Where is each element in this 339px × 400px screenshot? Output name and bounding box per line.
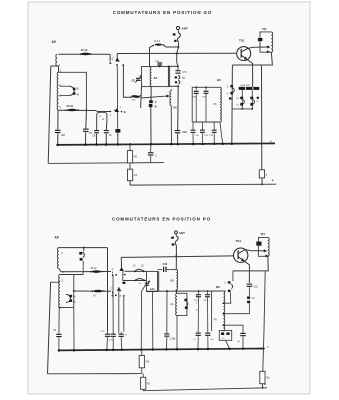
contact arm right with arrow [116, 54, 118, 59]
wire: A2 top corner to ANT line [168, 65, 178, 67]
capacitor C16a [105, 121, 108, 130]
emitter chain 16 blobs [247, 296, 250, 299]
cluster column B [251, 90, 253, 109]
wire: F6 down to bus1 [220, 122, 223, 144]
svg-text:+: + [264, 382, 266, 386]
svg-text:COMMUTATEURS EN POSITION PO: COMMUTATEURS EN POSITION PO [112, 217, 211, 222]
wire: emitter down [247, 60, 252, 87]
junction: ANT node on base wire [176, 53, 178, 55]
switch contacts inside box (26/45) [60, 85, 70, 87]
svg-text:C: C [155, 154, 157, 157]
svg-text:30 18: 30 18 [67, 104, 74, 108]
cap at 122.5 (PO) [118, 332, 120, 333]
oscillator box A2 outline [142, 67, 169, 87]
wire: switch left to riser [123, 66, 131, 98]
antenna switch contacts below ANT [173, 33, 176, 35]
cluster bottom tie wire [232, 108, 253, 110]
wire: ANT chain to C13 [177, 86, 180, 130]
svg-text:C13b: C13b [170, 338, 176, 340]
svg-text:C: C [111, 287, 113, 290]
tap3 wire with cap Cb (PO) [223, 325, 243, 333]
coil box (PO) left winding [59, 275, 60, 308]
svg-text:CO: CO [132, 79, 136, 82]
wire: osc box center down to bus [152, 291, 154, 350]
box bottom (PO) [60, 307, 74, 309]
wire: ANT down (PO) [175, 234, 177, 236]
base wire (PO) [121, 256, 233, 258]
wire: FI1 bottom L to emitter rail [232, 52, 272, 65]
row1 wire (PO) [59, 269, 111, 272]
transistor TS1 (GO) [237, 47, 251, 61]
wire: top horizontal to switch S1 [58, 53, 110, 55]
mid rail (PO) [48, 373, 142, 375]
svg-text:+: + [272, 179, 274, 183]
emitter RC cluster caps row [239, 87, 245, 90]
antenna terminal ANT (PO) [175, 231, 178, 234]
coil L2 winding section 3 [57, 96, 58, 110]
capacitor C2 [57, 110, 59, 130]
collector supply drop [261, 65, 263, 170]
svg-text:20 12: 20 12 [91, 267, 98, 270]
svg-text:A5: A5 [52, 40, 56, 44]
wire: ANT down to main node [177, 30, 179, 33]
row2 contacts [112, 295, 114, 297]
bottom caps row (PO) [196, 333, 201, 334]
wire: FI1 bottom to left rail (PO) [233, 256, 268, 271]
resistor R2 (PO) [142, 374, 144, 378]
svg-text:4 B: 4 B [133, 156, 137, 158]
ground bus (PO) [59, 349, 265, 351]
cap C between buses [150, 145, 152, 153]
wire: box bottom extension to node 1 [97, 111, 111, 113]
wire: tap stub to left rail [51, 65, 57, 67]
wire: emitter down (PO) [245, 261, 250, 283]
wire: coil tap to box [57, 66, 58, 73]
svg-text:C: C [112, 268, 114, 271]
svg-text:C3T: C3T [204, 300, 209, 302]
svg-text:CA1: CA1 [150, 288, 155, 291]
crystal-like component top (PO) [83, 248, 85, 252]
ground bus (GO) [56, 143, 275, 145]
wire: A2 center down [150, 87, 152, 101]
antenna switch contacts (PO) [171, 237, 174, 239]
coil L1 top winding [56, 54, 57, 65]
wire: CA1 down to bus (PO) [141, 287, 144, 350]
vertical link at contact column (PO) [122, 271, 124, 280]
coil L1 winding (PO) [57, 248, 58, 269]
wire: box3 down to bus [176, 315, 178, 349]
wire: collector to FI1 (PO) [245, 250, 265, 251]
capacitor C6 [85, 110, 88, 128]
svg-text:FI1: FI1 [262, 27, 267, 31]
BC box outline [192, 87, 220, 122]
svg-text:20 12: 20 12 [81, 48, 88, 52]
svg-text:FI1: FI1 [261, 232, 266, 236]
capacitor C8 [96, 121, 98, 130]
coil L2 winding section 1 [57, 72, 58, 85]
cap C2 (PO) [58, 308, 60, 334]
wire: Ra to B+ (PO) [262, 384, 264, 388]
switch contacts in box (PO) [66, 294, 71, 298]
svg-text:13T: 13T [194, 300, 198, 302]
FI1 transformer block [260, 32, 271, 38]
BC box (PO) [211, 291, 213, 331]
wire: ANT line down to C16 node [167, 269, 177, 271]
svg-text:13N: 13N [155, 61, 159, 63]
row2 wire (PO) [74, 290, 111, 292]
top wire (PO) [59, 247, 108, 249]
coil box (PO) top edge [60, 274, 83, 276]
jumper loop 11/14 [97, 112, 107, 121]
svg-text:A5: A5 [170, 278, 174, 282]
resistor R1 (PO) [141, 350, 143, 355]
wire: box right down to bus (PO) [73, 308, 75, 351]
padder cap 13N on A2 top [157, 62, 162, 63]
resistor Ra (PO) [260, 371, 265, 383]
contact C left (open) on node [109, 54, 111, 61]
A2 right winding [168, 67, 169, 87]
svg-text:C7b: C7b [182, 71, 187, 74]
caps on row3 (PO) 13T [198, 290, 200, 292]
B+ rail (GO) [129, 181, 131, 185]
left rail stub (PO) [51, 281, 60, 283]
svg-text:A2: A2 [153, 76, 157, 80]
switch S2 (closed) 30 18 [67, 109, 77, 112]
svg-text:ANT: ANT [182, 27, 188, 31]
coil L2 winding section 2 [57, 85, 58, 96]
resistor R5 (bus2 to B+) [129, 163, 131, 169]
cap C3T in BC box [205, 86, 207, 88]
wire: A2 bottom corner to ANT line [168, 85, 178, 87]
contacts on box3 [184, 299, 187, 302]
antenna terminal ANT (GO) [176, 26, 179, 29]
caps row below BC box C10 C11 [192, 122, 194, 130]
A2 left winding [150, 67, 151, 86]
wire row3 (PO) [146, 290, 223, 292]
svg-text:Cm: Cm [210, 339, 214, 341]
wire: down to bus1 [150, 107, 152, 145]
lower bus 2 (GO) [48, 162, 164, 165]
wire: osc stub with switch [150, 45, 154, 66]
osc box (PO) [147, 271, 158, 291]
svg-text:TS1: TS1 [239, 38, 245, 42]
contact marks on R1a rail [114, 110, 116, 112]
svg-text:C18: C18 [253, 285, 258, 288]
switch S1 (closed) with labels 20 12 [81, 53, 90, 56]
coil box (PO) right edge [73, 275, 75, 308]
svg-text:Cp4R 4RC: Cp4R 4RC [240, 85, 251, 87]
A5 winding (PO mid) [176, 270, 177, 290]
cap at 106 (PO) [105, 334, 110, 335]
svg-text:TS1: TS1 [236, 239, 242, 243]
wire: collector to FI1 [248, 47, 268, 48]
left rail vertical (PO) [48, 282, 51, 374]
resistor blocks 10/9N [149, 100, 153, 103]
wire: right end down [107, 248, 109, 332]
left rail vertical [48, 66, 51, 163]
switch S3 (closed) 9 7 [131, 95, 140, 99]
wire: R3 to B+ rail [261, 178, 263, 185]
wire: A2 bottom-left down past switch [140, 87, 143, 108]
svg-text:13N: 13N [192, 97, 196, 99]
capacitor C7b on ANT line [177, 63, 178, 70]
coil box L2 outline [59, 72, 87, 110]
resistor R4 (bus1 to bus2) [129, 144, 131, 150]
trimmer CA1 [145, 283, 149, 284]
riser from contact dot [116, 65, 118, 68]
B+ rail (PO) [142, 389, 144, 390]
FI1 block (PO) [258, 237, 267, 241]
switch contacts 2/4 on rail [230, 85, 233, 88]
row1 switch (lens) [92, 270, 101, 273]
cap 13N in BC box [195, 86, 197, 88]
riser from row1 area down [123, 296, 125, 332]
emitter chain C18 (PO) [247, 284, 253, 285]
bus junction dots (GO) [56, 144, 59, 147]
left rail contacts (PO) [232, 271, 234, 281]
A5 coil (GO) with feed arrow [170, 91, 171, 105]
switch arcs below C7b [178, 75, 180, 79]
main wire to transistor base [117, 52, 236, 54]
svg-text:A5: A5 [55, 236, 59, 240]
bus dots (PO) [58, 349, 61, 352]
transistor TS1 (PO) [234, 248, 248, 262]
long vertical with cap C13b [166, 291, 168, 333]
svg-text:13N: 13N [170, 238, 174, 240]
resistor R3 [259, 170, 264, 178]
box4 Ca/12 (PO) [219, 330, 231, 340]
vertical rail to bus1 (base side) [231, 65, 234, 145]
collector supply drop (PO) [263, 271, 265, 371]
row2 switch lens [93, 290, 102, 293]
svg-text:C3T: C3T [202, 97, 207, 99]
mid switch hump 2 (PO) [123, 280, 147, 282]
riser row2 arrow down [118, 287, 120, 332]
svg-text:C16: C16 [163, 263, 168, 266]
svg-text:ANT: ANT [179, 231, 185, 235]
svg-text:9N: 9N [154, 107, 157, 109]
svg-text:C: C [112, 56, 114, 60]
cluster column A [241, 90, 243, 109]
BC box right winding F6 [220, 87, 221, 122]
row1 arrow contact to base wire [120, 257, 122, 267]
trimmer CO [136, 78, 141, 79]
svg-text:A5: A5 [173, 106, 177, 110]
svg-text:4 B: 4 B [146, 362, 150, 364]
junction dot on top wire [83, 247, 85, 249]
svg-text:COMMUTATEURS EN POSITION GO: COMMUTATEURS EN POSITION GO [113, 10, 213, 15]
cap at 113 (PO) [112, 275, 114, 333]
coil box 3 (PO) [176, 293, 187, 315]
svg-text:C13: C13 [182, 131, 187, 134]
svg-text:12 13: 12 13 [154, 40, 161, 43]
resistor block R1a [116, 66, 118, 129]
svg-text:4 B: 4 B [134, 175, 138, 177]
cap below BC box C15 [213, 122, 215, 130]
mid switch hump 13/10 (PO) [125, 270, 147, 272]
wire: box bottom [59, 109, 97, 111]
junction dot box bottom right [86, 109, 88, 111]
junction dots row3 [166, 290, 168, 292]
capacitor C13 [175, 130, 180, 131]
row1 contacts C [112, 274, 114, 276]
